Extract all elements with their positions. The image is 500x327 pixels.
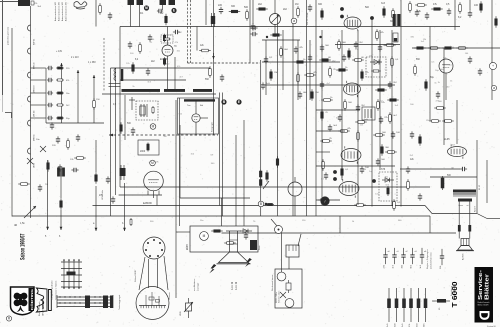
- junction: [319, 36, 321, 38]
- resistor: [361, 69, 364, 81]
- svg-text:1k: 1k: [352, 221, 354, 223]
- resistor: [304, 74, 316, 77]
- capacitor: [106, 176, 110, 183]
- resistor: [387, 99, 399, 102]
- wire: [288, 257, 290, 269]
- resistor: [266, 170, 269, 182]
- capacitor: [148, 34, 152, 41]
- socket neck line: [157, 259, 159, 288]
- resistor: [224, 242, 236, 245]
- capacitor (spare parts row): [420, 248, 424, 264]
- svg-text:EL 95: EL 95: [479, 184, 481, 190]
- fuse circle: [277, 272, 286, 281]
- chassis circle (bottom view): [136, 287, 169, 320]
- capacitor: [264, 56, 268, 63]
- supply rail: [213, 0, 215, 135]
- svg-text:mit Zubehör intern: mit Zubehör intern: [430, 251, 433, 269]
- supply rail: [277, 14, 279, 216]
- capacitor: [261, 82, 265, 89]
- wire: [294, 196, 296, 216]
- coil box: [393, 33, 398, 42]
- enclosure edge: [179, 98, 181, 226]
- tube pin marker: [372, 179, 376, 183]
- svg-text:EABC80: EABC80: [143, 202, 153, 205]
- capacitor: [379, 116, 383, 123]
- svg-text:T 6000: T 6000: [450, 282, 459, 308]
- svg-text:Rückwand innen: Rückwand innen: [272, 274, 274, 291]
- capacitor (spare parts row): [401, 248, 405, 264]
- supply rail: [249, 0, 251, 63]
- resistor: [429, 120, 441, 123]
- switch contact block: [110, 296, 113, 309]
- resistor: [311, 89, 314, 101]
- wire: [430, 176, 477, 178]
- svg-text:A 19..W: A 19..W: [231, 281, 234, 290]
- resistor: [373, 134, 385, 137]
- capacitor: [418, 193, 422, 200]
- capacitor: [244, 232, 248, 239]
- contact dot: [64, 302, 65, 303]
- scan page edge faint: [2, 95, 4, 112]
- resistor: [338, 130, 350, 133]
- wire: [124, 95, 126, 140]
- socket funnel line: [164, 256, 168, 290]
- svg-text:B: B: [260, 202, 262, 206]
- capacitor: [308, 54, 312, 61]
- contact dot: [64, 296, 65, 297]
- shield box top edge: [120, 26, 460, 28]
- IF transformer: [128, 0, 144, 5]
- resistor: [56, 67, 64, 69]
- wire: [316, 130, 345, 132]
- wire: [124, 183, 126, 231]
- resistor: [318, 199, 330, 202]
- contact dot: [94, 296, 95, 297]
- wire: [476, 140, 478, 213]
- diode: [240, 229, 252, 233]
- svg-text:am Abstimm-: am Abstimm-: [193, 278, 196, 291]
- capacitor: [58, 164, 62, 171]
- svg-text:M: M: [203, 234, 206, 238]
- trimmer arrow: [93, 75, 96, 123]
- svg-text:Werke GmbH: Werke GmbH: [478, 305, 490, 307]
- switch contact X: [27, 158, 33, 164]
- svg-text:1M: 1M: [443, 49, 446, 51]
- capacitor: [38, 184, 42, 191]
- contact dot: [59, 296, 60, 297]
- tube pin marker: [333, 177, 337, 181]
- arrow: [212, 53, 215, 59]
- resistor in box: [387, 186, 389, 196]
- filter box: [138, 140, 159, 155]
- coil with core: [211, 13, 215, 27]
- tube pin marker: [340, 15, 344, 19]
- transformer core lines: [453, 194, 476, 196]
- switch contact block: [67, 272, 76, 276]
- supply rail: [371, 18, 373, 207]
- wire: [109, 86, 121, 88]
- switch arrow: [24, 206, 36, 218]
- switch grid column: [68, 260, 70, 288]
- resistor: [47, 160, 50, 172]
- capacitor: [378, 44, 382, 51]
- svg-text:2 x 21V: 2 x 21V: [71, 57, 79, 59]
- resistor (spare parts row): [409, 288, 413, 322]
- switch grid row: [61, 281, 82, 283]
- contact dot: [73, 259, 75, 261]
- resistor: [425, 79, 428, 91]
- resistor: [393, 199, 396, 211]
- svg-text:M: M: [145, 6, 148, 10]
- svg-text:Antennenbuchse 240: Antennenbuchse 240: [61, 1, 64, 21]
- resistor: [384, 44, 396, 47]
- svg-text:a: a: [293, 19, 295, 23]
- wire: [357, 30, 359, 205]
- svg-text:Regler u. Folgeregler: Regler u. Folgeregler: [426, 249, 429, 269]
- resistor: [246, 9, 249, 21]
- wire: [95, 186, 97, 231]
- resistor: [385, 151, 397, 154]
- contact dot: [73, 287, 75, 289]
- capacitor: [50, 122, 54, 129]
- resistor: [321, 109, 324, 121]
- contact dot: [94, 302, 95, 303]
- resistor: [376, 29, 379, 41]
- capacitor: [388, 81, 392, 88]
- shield box edge: [429, 27, 431, 122]
- switch symbol: [280, 292, 286, 298]
- wire to speaker: [469, 202, 471, 239]
- resistor: [389, 112, 392, 124]
- resistor: [280, 46, 283, 58]
- svg-text:EL95: EL95: [444, 138, 450, 141]
- capacitor: [440, 249, 444, 265]
- wire: [262, 39, 300, 41]
- capacitor: [356, 104, 360, 111]
- resistor (spare parts row): [395, 288, 399, 322]
- Körting logo shield: [10, 287, 34, 315]
- svg-text:Netzteil unten: Netzteil unten: [277, 291, 280, 303]
- capacitor: [324, 172, 328, 179]
- handwritten mark: [74, 2, 87, 10]
- resistor: [256, 8, 268, 11]
- shield box edge: [115, 68, 117, 195]
- contact dot: [63, 259, 65, 261]
- diode in box: [370, 60, 382, 65]
- resistor: [442, 120, 454, 123]
- resistor: [381, 144, 384, 156]
- capacitor: [376, 158, 380, 165]
- socket funnel line: [139, 257, 145, 290]
- detector box dashed: [366, 57, 386, 77]
- resistor: [322, 159, 325, 171]
- capacitor: [391, 131, 395, 138]
- wire: [341, 30, 343, 180]
- junction: [266, 36, 268, 38]
- supply rail: [260, 60, 262, 216]
- wire: [298, 234, 301, 246]
- contact dot: [99, 302, 100, 303]
- scan page edge: [2, 0, 4, 95]
- resistor: [441, 176, 444, 190]
- switch bank end: [56, 295, 58, 308]
- measuring point M: [150, 124, 156, 130]
- svg-text:5k6: 5k6: [365, 6, 370, 9]
- shield box bottom edge: [120, 186, 430, 188]
- svg-text:300: 300: [390, 20, 395, 23]
- svg-text:UKW: UKW: [41, 302, 45, 309]
- resistor: [164, 38, 171, 40]
- wire: [60, 210, 62, 230]
- wire: [262, 84, 395, 86]
- svg-text:Klangregler: Klangregler: [212, 121, 214, 132]
- contact dot: [79, 296, 80, 297]
- marker E: [236, 99, 241, 104]
- switch grid column: [63, 260, 65, 288]
- resistor: [377, 99, 380, 111]
- wire: [200, 117, 208, 119]
- wire: [31, 79, 46, 81]
- connection arrowhead: [123, 228, 126, 231]
- svg-text:Tastenaggregat: Tastenaggregat: [118, 295, 121, 310]
- wire: [487, 218, 500, 220]
- wire: [158, 191, 160, 196]
- switch bank line: [57, 302, 113, 304]
- capacitor: [360, 166, 364, 173]
- capacitor: [71, 168, 78, 172]
- wire: [282, 30, 284, 90]
- switch contact X: [40, 146, 46, 152]
- socket neck line: [148, 259, 150, 288]
- main bottom rail 2: [12, 215, 430, 217]
- IF transformer: [362, 107, 375, 120]
- resistor: [229, 10, 241, 13]
- wire: [309, 40, 311, 100]
- main rail right segment: [432, 213, 477, 215]
- wire: [31, 104, 46, 106]
- wire: [47, 160, 49, 230]
- wire: [139, 5, 141, 27]
- resistor: [259, 170, 262, 179]
- resistor: [414, 47, 426, 50]
- resistor: [67, 138, 70, 150]
- connection arrowhead: [95, 228, 98, 231]
- resistor: [348, 48, 351, 60]
- svg-text:A 19..W: A 19..W: [235, 281, 238, 290]
- wire: [174, 57, 176, 89]
- antenna input block: [18, 0, 34, 6]
- tube pin marker: [370, 16, 374, 20]
- capacitor: [468, 56, 472, 63]
- wire: [195, 100, 197, 114]
- resistor: [120, 122, 123, 134]
- main rail bend: [425, 206, 432, 214]
- tube (indicator drive): [192, 114, 200, 122]
- svg-text:2k2: 2k2: [258, 3, 263, 6]
- contact dot: [69, 296, 70, 297]
- resistor: [209, 66, 212, 78]
- switch contact block: [103, 296, 108, 309]
- capacitor: [354, 41, 358, 48]
- wire: [195, 122, 197, 135]
- capacitor: [468, 10, 472, 17]
- resistor: [431, 8, 443, 11]
- resistor: [344, 99, 347, 111]
- capacitor: [294, 46, 298, 53]
- wire: [400, 168, 460, 170]
- supply rail: [306, 0, 308, 216]
- antenna line: [30, 6, 32, 210]
- capacitor (spare parts row): [392, 248, 396, 264]
- supply rail: [196, 27, 198, 51]
- resistor: [132, 62, 135, 74]
- resistor: [320, 140, 332, 143]
- contact dot: [74, 302, 75, 303]
- svg-text:3n3: 3n3: [381, 2, 386, 5]
- capacitor: [47, 91, 53, 95]
- wire: [265, 40, 267, 95]
- svg-text:+: +: [492, 64, 494, 68]
- svg-text:MW 187: MW 187: [34, 84, 36, 93]
- resistor: [270, 34, 282, 37]
- wire: [469, 0, 471, 10]
- switch grid row: [61, 268, 82, 270]
- resistor (spare parts row): [402, 288, 406, 322]
- wire: [297, 40, 299, 100]
- svg-text:EM87: EM87: [187, 243, 189, 250]
- wire: [321, 30, 323, 205]
- resistor: [276, 156, 279, 168]
- capacitor: [250, 32, 257, 36]
- wire: [456, 100, 458, 144]
- wire: [120, 79, 186, 81]
- terminal arrowhead: [46, 227, 49, 230]
- wire: [102, 93, 216, 95]
- resistor: [495, 16, 498, 28]
- svg-text:E: E: [238, 100, 240, 104]
- svg-text:Blätter: Blätter: [485, 273, 491, 300]
- corner bracket mark: [5, 113, 12, 119]
- resistor: [456, 47, 468, 50]
- capacitor: [47, 116, 53, 120]
- svg-text:Netz: Netz: [258, 246, 261, 251]
- resistor: [428, 47, 440, 50]
- resistor: [211, 230, 223, 233]
- wire: [176, 231, 190, 233]
- supply rail: [221, 198, 223, 226]
- contact dot: [78, 287, 80, 289]
- IF transformer: [160, 0, 176, 5]
- tube (output EL95): [448, 144, 467, 158]
- resistor: [99, 3, 102, 15]
- resistor: [336, 69, 348, 72]
- potentiometer with switch: [271, 219, 283, 234]
- resistor: [442, 47, 454, 50]
- resistor: [355, 121, 367, 124]
- shield box edge: [110, 68, 112, 216]
- svg-text:UKW-Taste: UKW-Taste: [101, 189, 104, 200]
- resistor: [56, 117, 64, 119]
- wire: [31, 117, 46, 119]
- capacitor: [250, 26, 257, 30]
- supply rail: [205, 0, 207, 25]
- coil box dashed: [136, 101, 158, 120]
- measuring point: [150, 160, 156, 166]
- tube pin marker: [333, 170, 337, 174]
- contact dot: [69, 302, 70, 303]
- wire: [445, 73, 447, 100]
- connection point: [291, 18, 297, 24]
- capacitor: [47, 66, 53, 70]
- tube marker M: [144, 5, 149, 10]
- svg-text:D: D: [476, 310, 492, 320]
- wire to speaker: [458, 202, 460, 239]
- diode in box: [382, 178, 394, 182]
- connector block: [286, 245, 299, 257]
- svg-text:E: E: [173, 9, 175, 13]
- output transformer winding: [458, 199, 472, 202]
- marker B: [221, 99, 226, 104]
- capacitor: [131, 127, 135, 134]
- junction: [265, 203, 268, 206]
- svg-text:2k2: 2k2: [283, 8, 288, 11]
- capacitor: [308, 4, 312, 11]
- AM oscillator coil: [57, 168, 65, 177]
- supply rail: [175, 100, 177, 226]
- svg-text:anzeiger: anzeiger: [197, 282, 200, 291]
- svg-text:2000: 2000: [140, 151, 146, 153]
- capacitor: [338, 114, 342, 121]
- FM input coil: [114, 69, 123, 82]
- wire: [379, 30, 381, 170]
- capacitor (spare parts row): [383, 248, 387, 264]
- svg-text:a2: a2: [406, 251, 408, 253]
- svg-text:Art 805: Art 805: [462, 253, 465, 260]
- capacitor: [76, 134, 80, 141]
- svg-text:1M: 1M: [179, 32, 182, 34]
- antenna coil tap: [28, 72, 31, 78]
- capacitor: [406, 166, 410, 173]
- resistor: [392, 8, 395, 20]
- switch bank line: [57, 299, 113, 301]
- switch grid row: [61, 286, 82, 288]
- shield partition dashed: [188, 62, 261, 64]
- resistor: [319, 59, 331, 62]
- capacitor: [128, 41, 132, 48]
- resistor: [357, 130, 360, 142]
- varistor: [184, 298, 193, 318]
- svg-text:a1: a1: [397, 251, 399, 253]
- potentiometer track black bar: [184, 99, 215, 101]
- tuning capacitor: [270, 0, 281, 37]
- wire: [109, 83, 121, 85]
- resistor: [459, 2, 462, 14]
- resistor in box: [371, 70, 381, 72]
- svg-text:LW 1kt: LW 1kt: [33, 110, 36, 117]
- border frame left: [11, 28, 13, 217]
- resistor: [139, 42, 142, 54]
- svg-text:Antennenbuchse 240: Antennenbuchse 240: [65, 1, 68, 21]
- capacitor: [298, 91, 302, 98]
- wire: [60, 170, 62, 198]
- wire: [429, 216, 431, 233]
- wire: [486, 160, 488, 203]
- wire: [46, 122, 104, 124]
- capacitor: [251, 23, 255, 30]
- svg-text:Klangtaste gedrückt: Klangtaste gedrückt: [51, 280, 54, 300]
- wire: [95, 140, 97, 172]
- wire: [31, 92, 46, 94]
